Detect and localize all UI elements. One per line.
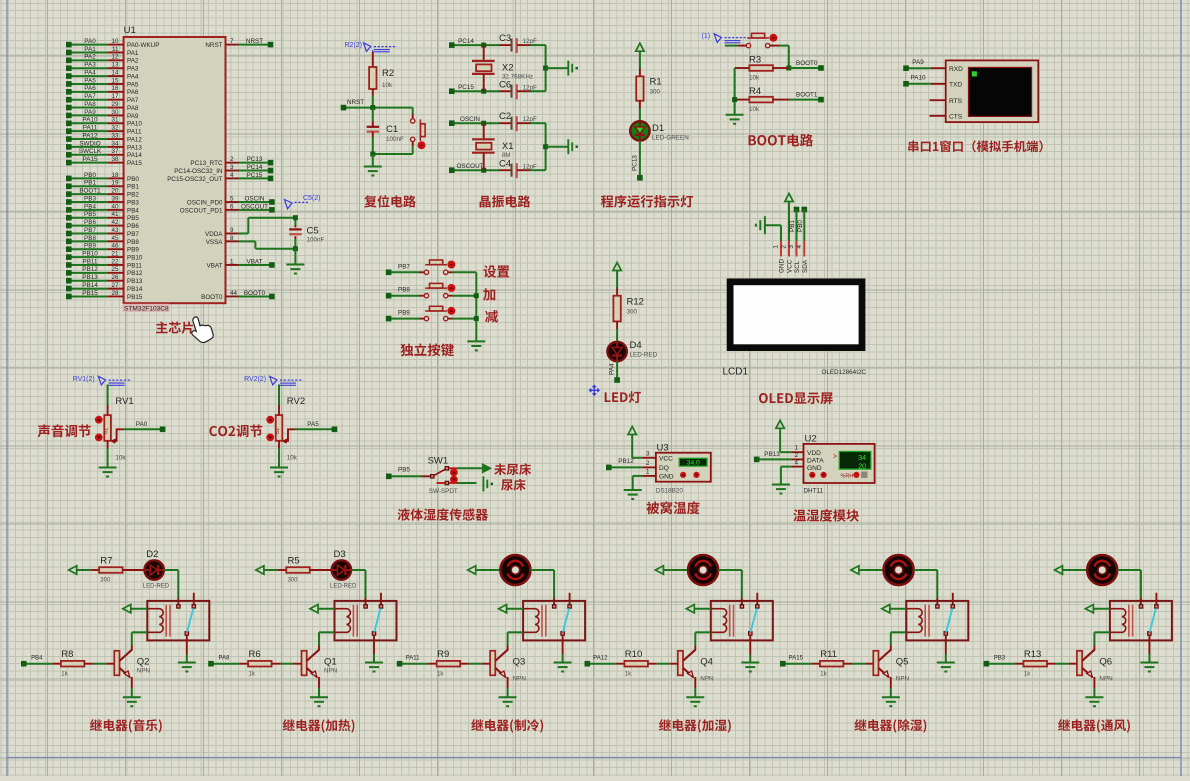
pin PB10 / net PB10 / pin number 21	[69, 256, 108, 258]
svg-text:46: 46	[111, 243, 119, 250]
svg-text:2: 2	[795, 452, 799, 459]
svg-text:PA6: PA6	[127, 89, 139, 96]
svg-text:42: 42	[111, 219, 119, 226]
svg-text:PA5: PA5	[307, 421, 319, 428]
svg-text:1: 1	[646, 468, 650, 475]
svg-text:32: 32	[111, 125, 119, 132]
relay K4 body	[711, 601, 773, 641]
svg-text:GND: GND	[659, 473, 674, 480]
resistor R2 10k	[369, 67, 376, 89]
wiper arrow RV1	[110, 438, 117, 444]
svg-text:PB8: PB8	[398, 287, 410, 294]
svg-text:RV1: RV1	[115, 396, 133, 407]
svg-text:PA2: PA2	[84, 54, 96, 61]
ground (K1 contact)	[178, 662, 196, 664]
svg-text:PB4: PB4	[127, 207, 139, 214]
net PC14 wire	[452, 44, 499, 46]
svg-text:32.768KHz: 32.768KHz	[502, 74, 533, 81]
pin GND stub (OLED)	[780, 241, 782, 257]
relay K2 NC stub	[380, 593, 382, 605]
svg-text:PB9: PB9	[84, 243, 96, 250]
pin PB4 / net PB4 / pin number 40	[69, 209, 108, 211]
pin PA12 / net PA12 / pin number 33	[69, 138, 108, 140]
svg-text:34: 34	[858, 455, 866, 462]
pin SCL stub (OLED)	[796, 241, 798, 257]
svg-text:PB9: PB9	[398, 310, 410, 317]
svg-text:PA7: PA7	[84, 93, 96, 100]
svg-text:PB8: PB8	[127, 239, 139, 246]
ground (Q1)	[310, 696, 328, 698]
ground (Q6)	[1085, 696, 1103, 698]
svg-text:1: 1	[795, 445, 799, 452]
net PA15 wire	[783, 663, 812, 665]
pin PA2 / net PA2 / pin number 12	[69, 59, 108, 61]
svg-text:34: 34	[111, 140, 119, 147]
pin DATA stub (U2)	[791, 458, 803, 460]
pin RTS stub	[930, 99, 946, 101]
svg-text:U1: U1	[124, 25, 136, 36]
svg-text:2: 2	[646, 460, 650, 467]
svg-text:PA6: PA6	[84, 85, 96, 92]
svg-text:27: 27	[111, 282, 119, 289]
wire motor to relay	[531, 569, 555, 571]
relay K1 coil	[147, 609, 163, 633]
svg-text:RV2: RV2	[287, 396, 305, 407]
svg-text:PB4: PB4	[84, 203, 96, 210]
svg-text:BOOT0: BOOT0	[244, 290, 266, 297]
pin PA6 / net PA6 / pin number 16	[69, 91, 108, 93]
svg-text:PA9: PA9	[127, 113, 139, 120]
transistor Q1 NPN	[302, 651, 307, 676]
svg-text:1k: 1k	[820, 672, 827, 678]
svg-text:25: 25	[111, 266, 119, 273]
svg-text:12pF: 12pF	[523, 38, 538, 45]
wire R8 to base	[84, 663, 93, 665]
relay K5 contact arm	[946, 608, 952, 632]
svg-text:DQ: DQ	[659, 465, 669, 472]
svg-text:PA2: PA2	[127, 58, 139, 65]
push button (key PB9)	[420, 318, 425, 320]
svg-text:PB13: PB13	[127, 278, 143, 285]
ground (Q4)	[686, 696, 704, 698]
svg-text:5: 5	[230, 195, 234, 202]
svg-text:PB13: PB13	[82, 274, 98, 281]
potentiometer RV2 10k	[276, 415, 283, 441]
up-down buttons U3	[680, 472, 686, 478]
svg-text:1k: 1k	[437, 672, 444, 678]
svg-text:NPN: NPN	[513, 676, 527, 683]
relay K3 contacts	[553, 605, 556, 608]
power arrow (K5 coil)	[882, 605, 890, 613]
power symbol (R1)	[636, 43, 644, 51]
svg-text:SW1: SW1	[428, 456, 449, 467]
ground (K6 contact)	[1140, 662, 1158, 664]
svg-text:PC15: PC15	[458, 84, 474, 91]
svg-text:PB7: PB7	[398, 263, 410, 270]
svg-text:OSCIN: OSCIN	[245, 195, 265, 202]
net PB0 wire (SDA)	[802, 207, 808, 213]
svg-text:PA10: PA10	[127, 121, 142, 128]
svg-text:PB6: PB6	[84, 219, 96, 226]
svg-text:10: 10	[111, 38, 119, 45]
svg-text:10k: 10k	[382, 82, 393, 89]
svg-text:PC14-OSC32_IN: PC14-OSC32_IN	[174, 168, 223, 175]
power arrow (motor K3)	[468, 566, 476, 574]
pin PC15-OSC32_OUT / net PC15 / pin number 4	[226, 177, 239, 179]
relay K4 contact arm	[751, 608, 757, 632]
svg-text:10k: 10k	[287, 455, 298, 462]
svg-text:2: 2	[230, 156, 234, 163]
ground (BOOT)	[726, 114, 744, 116]
svg-text:NRST: NRST	[347, 99, 364, 106]
svg-text:26: 26	[111, 274, 119, 281]
svg-text:PC13: PC13	[247, 156, 263, 163]
svg-text:PA5: PA5	[127, 81, 139, 88]
pin BOOT0 / net BOOT0 / pin number 44	[226, 295, 239, 297]
svg-text:PB3: PB3	[994, 656, 1006, 662]
svg-text:BOOT0: BOOT0	[201, 294, 223, 301]
pin PA1 / net PA1 / pin number 11	[69, 51, 108, 53]
svg-text:100nF: 100nF	[386, 136, 404, 143]
svg-text:44: 44	[230, 290, 238, 297]
svg-text:RV1(2): RV1(2)	[73, 376, 95, 383]
wire BOOT button right	[770, 45, 779, 47]
svg-text:1: 1	[773, 245, 780, 249]
net OSCIN wire	[452, 122, 499, 124]
svg-text:D1: D1	[652, 123, 664, 134]
svg-text:OSCOUT: OSCOUT	[241, 203, 268, 210]
resistor R8 1k	[61, 661, 85, 667]
relay K4 NC stub	[756, 593, 758, 605]
pin PB7 / net PB7 / pin number 43	[69, 232, 108, 234]
pin PA4 / net PA4 / pin number 14	[69, 75, 108, 77]
wire key PB9 to bus	[452, 318, 476, 320]
pin VSSA / pin number 8	[226, 240, 239, 242]
pin PC13_RTC / net PC13 / pin number 2	[226, 162, 239, 164]
svg-text:PA11: PA11	[406, 656, 420, 662]
svg-text:34.0: 34.0	[687, 460, 700, 467]
svg-text:300: 300	[100, 578, 111, 584]
wire R1 to D1	[639, 101, 641, 108]
svg-text:LED-RED: LED-RED	[143, 584, 170, 590]
relay K2 contact arm	[374, 608, 380, 632]
wire crystal bus right 2	[545, 123, 547, 170]
wire emitter to ground	[1093, 677, 1095, 688]
net NRST node	[344, 107, 413, 109]
svg-text:C3: C3	[499, 33, 511, 44]
ground (reset)	[364, 166, 382, 168]
svg-text:29: 29	[111, 101, 119, 108]
svg-text:R9: R9	[437, 649, 449, 660]
svg-text:C2: C2	[499, 111, 511, 122]
ground (K3 contact)	[554, 662, 572, 664]
pin GND stub (U3)	[642, 475, 656, 477]
up-down buttons SW1	[450, 469, 458, 477]
svg-text:PA15: PA15	[83, 156, 98, 163]
power symbol (U2)	[776, 420, 784, 428]
net BOOT1 wire	[773, 99, 789, 101]
svg-text:PA4: PA4	[84, 69, 96, 76]
sheet border	[6, 0, 8, 776]
push button (key PB7)	[420, 271, 425, 273]
svg-text:PA8: PA8	[127, 105, 139, 112]
svg-text:21: 21	[111, 250, 119, 257]
svg-text:VBAT: VBAT	[207, 262, 223, 269]
pin OSCIN_PD0 / net OSCIN / pin number 5	[226, 201, 239, 203]
wire contact to ground	[186, 635, 188, 654]
pin PA10 / net PA10 / pin number 31	[69, 122, 108, 124]
svg-text:37: 37	[111, 148, 119, 155]
pin PA14 / net SWCLK / pin number 37	[69, 154, 108, 156]
svg-text:VDDA: VDDA	[205, 231, 223, 238]
svg-text:3: 3	[230, 164, 234, 171]
relay K6 NC stub	[1155, 593, 1157, 605]
wire R10 to base	[648, 663, 657, 665]
net PB13 wire	[757, 458, 792, 460]
capacitor C4 12pF	[511, 164, 513, 177]
pin PB9 / net PB9 / pin number 46	[69, 248, 108, 250]
ground (RV2)	[270, 467, 288, 469]
pin TXD stub	[931, 83, 946, 85]
up-down buttons RV1	[95, 416, 103, 424]
svg-text:PB12: PB12	[618, 458, 634, 465]
relay K6 body	[1110, 601, 1172, 641]
svg-text:31: 31	[111, 117, 119, 124]
svg-text:15: 15	[111, 77, 119, 84]
net PA11 wire	[400, 663, 429, 665]
pin VDD stub (U2)	[791, 451, 803, 453]
pin CTS stub	[930, 115, 946, 117]
pin PC14-OSC32_IN / net PC14 / pin number 3	[226, 170, 239, 172]
svg-text:PA0-WKUP: PA0-WKUP	[127, 42, 159, 49]
svg-text:BOOT1: BOOT1	[796, 91, 818, 98]
wire emitter to ground	[507, 677, 509, 688]
pin PA15 / net PA15 / pin number 38	[69, 162, 108, 164]
svg-text:45: 45	[111, 235, 119, 242]
resistor R10 1k	[624, 661, 648, 667]
svg-text:100nF: 100nF	[307, 237, 325, 244]
wire coil to Q3	[508, 631, 523, 633]
svg-text:33: 33	[111, 132, 119, 139]
svg-text:PB0: PB0	[127, 176, 139, 183]
up-down buttons RV2	[266, 416, 274, 424]
svg-text:61: 61	[104, 428, 110, 434]
svg-text:1: 1	[230, 258, 234, 265]
net PA10 wire	[906, 83, 931, 85]
svg-text:12: 12	[111, 54, 119, 61]
svg-text:R13: R13	[1024, 649, 1041, 660]
svg-text:PB3: PB3	[84, 195, 96, 202]
svg-text:17: 17	[111, 93, 119, 100]
svg-text:LCD1: LCD1	[723, 367, 749, 378]
transistor Q4 NPN	[678, 651, 683, 676]
pin PB12 / net PB12 / pin number 25	[69, 272, 108, 274]
pin PB15 / net PB15 / pin number 28	[69, 295, 108, 297]
capacitor C6 12pF	[511, 85, 513, 98]
svg-text:PB0: PB0	[797, 220, 804, 232]
relay K2 coil	[335, 609, 351, 633]
svg-text:PB1: PB1	[789, 220, 796, 232]
wire emitter to ground	[318, 677, 320, 688]
svg-text:4: 4	[230, 172, 234, 179]
svg-text:PB9: PB9	[127, 247, 139, 254]
svg-text:PB12: PB12	[82, 266, 98, 273]
svg-text:PA12: PA12	[593, 656, 608, 662]
svg-text:Q1: Q1	[324, 657, 337, 668]
svg-text:OSCIN_PD0: OSCIN_PD0	[187, 199, 223, 206]
wire R11 to base	[843, 663, 852, 665]
relay K5 body	[906, 601, 968, 641]
wire to RV1	[107, 385, 109, 406]
svg-text:PC15-OSC32_OUT: PC15-OSC32_OUT	[167, 176, 222, 183]
wire RV2 to ground	[278, 441, 280, 448]
net BOOT0 wire	[773, 67, 789, 69]
svg-text:PA3: PA3	[84, 62, 96, 69]
svg-text:2: 2	[781, 245, 788, 249]
resistor R6 1k	[248, 661, 272, 667]
svg-text:PB1: PB1	[127, 184, 139, 191]
resistor R12 300	[613, 296, 620, 322]
svg-text:PA0: PA0	[84, 38, 96, 45]
net PB5 wire	[389, 475, 421, 477]
net PB9 wire	[389, 318, 421, 320]
svg-text:SDA: SDA	[802, 259, 809, 273]
svg-text:PB2: PB2	[127, 192, 139, 199]
pin PB5 / net PB5 / pin number 41	[69, 217, 108, 219]
pin PB6 / net PB6 / pin number 42	[69, 225, 108, 227]
output arrow (throw1)	[483, 464, 491, 472]
svg-text:PA13: PA13	[127, 144, 142, 151]
wire SW1 throw2	[458, 482, 477, 484]
wire motor to relay	[914, 569, 938, 571]
wire R6 to base	[272, 663, 281, 665]
wire C1 to bottom rail	[372, 132, 374, 137]
svg-text:VSSA: VSSA	[206, 239, 224, 246]
svg-text:PA4: PA4	[127, 73, 139, 80]
relay K6 contacts	[1139, 605, 1142, 608]
net PA0 wire	[124, 428, 163, 430]
svg-text:PA0: PA0	[136, 421, 148, 428]
relay K5 coil	[906, 609, 922, 633]
motor (K6)	[1087, 555, 1117, 585]
pin PA11 / net PA11 / pin number 32	[69, 130, 108, 132]
net PB12 wire	[609, 466, 643, 468]
sensor U3 DS18B20	[656, 453, 711, 482]
svg-text:D4: D4	[630, 340, 642, 351]
wire U3 GND to ground	[633, 475, 643, 477]
wire NRST to C1	[372, 108, 374, 121]
svg-text:OSCIN: OSCIN	[460, 116, 480, 123]
svg-text:R12: R12	[627, 297, 644, 308]
transistor Q6 NPN	[1077, 651, 1082, 676]
wire emitter to ground	[131, 677, 133, 688]
virtual terminal (serial window)	[946, 60, 1039, 122]
LED D4 LED-RED	[607, 342, 626, 361]
svg-text:PA1: PA1	[84, 46, 96, 53]
transistor Q5 NPN	[873, 651, 878, 676]
wire button branch	[412, 108, 414, 114]
pin PB14 / net PB14 / pin number 27	[69, 288, 108, 290]
pin PA7 / net PA7 / pin number 17	[69, 99, 108, 101]
svg-text:12pF: 12pF	[523, 116, 538, 123]
svg-text:R1: R1	[650, 77, 662, 88]
svg-text:PB1: PB1	[84, 180, 96, 187]
resistor R9 1k	[437, 661, 461, 667]
svg-text:19: 19	[111, 180, 119, 187]
relay K1 NC stub	[193, 593, 195, 605]
power arrow (K6 coil)	[1085, 605, 1093, 613]
svg-text:R2: R2	[382, 68, 394, 79]
svg-text:(1): (1)	[702, 33, 711, 40]
resistor R13 1k	[1024, 661, 1048, 667]
svg-text:OSCOUT: OSCOUT	[457, 163, 484, 170]
ground (RV1)	[99, 467, 117, 469]
net PB1 wire (SCL)	[794, 207, 800, 213]
wire emitter to ground	[890, 677, 892, 688]
pin PB8 / net PB8 / pin number 45	[69, 240, 108, 242]
svg-text:RXD: RXD	[949, 66, 963, 73]
svg-text:PB14: PB14	[127, 286, 143, 293]
wire contact to ground	[1148, 635, 1150, 654]
power arrow (motor K4)	[655, 566, 663, 574]
pin PA0-WKUP / net PA0 / pin number 10	[69, 44, 108, 46]
net PB4 wire	[24, 663, 53, 665]
svg-text:300: 300	[650, 89, 661, 96]
probe annotation RV2(2)	[270, 376, 277, 385]
svg-text:STM32F103C8: STM32F103C8	[124, 305, 169, 312]
svg-text:8: 8	[230, 235, 234, 242]
pin GND stub (U2)	[791, 466, 803, 468]
svg-text:PB5: PB5	[84, 211, 96, 218]
svg-text:LED-GREEN: LED-GREEN	[652, 135, 689, 142]
ground (keys)	[467, 340, 485, 342]
svg-text:C6: C6	[499, 80, 511, 91]
power arrow (R8)	[69, 566, 77, 574]
svg-text:20: 20	[858, 463, 866, 470]
svg-text:R7: R7	[100, 556, 112, 567]
pin OSCOUT_PD1 / net OSCOUT / pin number 6	[226, 209, 239, 211]
wire R9 to base	[460, 663, 469, 665]
svg-text:PB6: PB6	[127, 223, 139, 230]
motor (K3)	[500, 555, 530, 585]
svg-text:PA9: PA9	[84, 109, 96, 116]
svg-text:13: 13	[111, 62, 119, 69]
svg-text:16: 16	[111, 85, 119, 92]
probe annotation RV1(2)	[98, 376, 105, 385]
net OSCOUT wire	[452, 169, 499, 171]
svg-text:CTS: CTS	[949, 113, 963, 120]
svg-text:NPN: NPN	[700, 676, 714, 683]
svg-text:10k: 10k	[115, 455, 126, 462]
svg-text:GND: GND	[779, 259, 786, 273]
wire emitter to ground	[694, 677, 696, 688]
svg-text:VCC: VCC	[787, 259, 794, 273]
relay K6 contact arm	[1150, 608, 1156, 632]
relay K1 contact arm	[187, 608, 193, 632]
svg-text:300: 300	[627, 309, 638, 316]
svg-text:3: 3	[646, 450, 650, 457]
relay K3 coil	[523, 609, 539, 633]
power arrow (K3 coil)	[499, 605, 507, 613]
svg-text:NPN: NPN	[1099, 676, 1113, 683]
svg-text:R4: R4	[749, 86, 761, 97]
ground (OLED)	[764, 216, 766, 234]
wire BOOT button left	[725, 45, 738, 47]
svg-text:PA10: PA10	[83, 117, 98, 124]
svg-text:SWCLK: SWCLK	[79, 148, 102, 155]
ground (C5)	[286, 264, 304, 266]
svg-text:OLED12864I2C: OLED12864I2C	[822, 369, 867, 376]
